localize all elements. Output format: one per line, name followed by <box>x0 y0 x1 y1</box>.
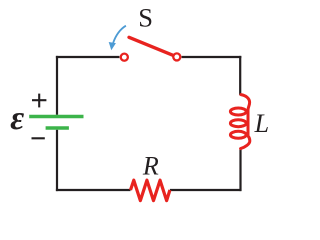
svg-text:L: L <box>254 109 269 138</box>
svg-text:R: R <box>142 151 159 180</box>
svg-text:S: S <box>138 3 153 33</box>
svg-text:ε: ε <box>10 100 24 137</box>
